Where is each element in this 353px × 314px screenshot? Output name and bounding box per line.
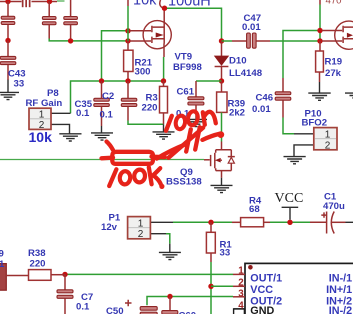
annotation 100n text [166, 110, 216, 130]
svg-text:IN-/2: IN-/2 [329, 305, 352, 314]
resistor R39 [217, 81, 246, 118]
svg-text:220: 220 [142, 102, 158, 113]
svg-text:D10: D10 [229, 55, 247, 66]
svg-text:2k2: 2k2 [229, 107, 245, 118]
svg-text:220: 220 [30, 258, 46, 269]
capacitor C43 [0, 41, 25, 90]
capacitor (x=8 top) [1, 2, 15, 41]
capacitor C35 [75, 81, 110, 126]
resistor R1 [206, 222, 232, 262]
node VCC junction [287, 220, 292, 225]
capacitor (x=49 top) [42, 2, 56, 39]
node x211 y222.3 [208, 220, 213, 225]
node x101.5 y81 [99, 78, 104, 83]
node D10/R39 junction [219, 78, 224, 83]
wire VCC pin2 row green [211, 285, 233, 287]
node x128 y41 [125, 38, 130, 43]
svg-text:68: 68 [249, 204, 260, 215]
svg-text:C46: C46 [256, 93, 274, 104]
svg-text:C50: C50 [106, 306, 124, 314]
svg-text:470: 470 [326, 0, 342, 7]
node x211 y286.3 [208, 284, 213, 289]
node x65 y274.4 [62, 272, 67, 277]
wire gate1 net green y30.8 [102, 31, 129, 81]
svg-text:OUT/1: OUT/1 [250, 272, 282, 284]
svg-text:0.01: 0.01 [252, 104, 271, 115]
svg-text:4: 4 [238, 301, 244, 312]
svg-text:33: 33 [220, 248, 231, 259]
svg-text:C60: C60 [179, 311, 197, 314]
ground (P8 pin2) [59, 134, 81, 141]
node x170 y296.5 [167, 294, 172, 299]
wire top net maroon [0, 0, 65, 3]
node top-left junction [5, 0, 10, 4]
svg-text:27k: 27k [325, 68, 342, 79]
svg-text:10k: 10k [133, 0, 157, 8]
svg-text:470u: 470u [323, 201, 345, 212]
node x163.5 y81 [161, 78, 166, 83]
ground (C61) [185, 113, 207, 127]
node x70.6 y41 [68, 38, 73, 43]
annotation crossed capacitor scribble [157, 127, 224, 158]
svg-text:1: 1 [138, 218, 144, 229]
svg-text:0.1: 0.1 [100, 110, 114, 121]
node VT9 drain junction [162, 6, 167, 11]
transistor MOSFET (right, partial) [322, 21, 353, 49]
transistor VT9 BF998 dual-gate MOSFET [130, 8, 202, 81]
svg-text:3: 3 [238, 289, 244, 300]
wire green R4 to C1 [270, 221, 310, 223]
ground (right MOSFET source, clipped) [345, 93, 353, 98]
wire OUT/1 net green y274.4 [65, 273, 233, 275]
svg-text:VCC: VCC [250, 284, 273, 296]
node top junction x49 [47, 0, 52, 4]
svg-text:R19: R19 [325, 57, 343, 68]
node x320 y41 [317, 38, 322, 43]
wire gate2/C46 net green [283, 31, 320, 79]
resistor R4 [232, 195, 270, 226]
svg-text:IN-/1: IN-/1 [329, 272, 352, 284]
svg-text:1: 1 [39, 109, 45, 120]
svg-text:2: 2 [238, 278, 244, 289]
svg-text:0.1: 0.1 [76, 302, 90, 313]
wire OUT/2 net green y296.5 [147, 297, 233, 306]
resistor R38 [6, 248, 65, 280]
svg-text:1: 1 [238, 266, 244, 277]
svg-text:0.1: 0.1 [76, 108, 90, 119]
svg-text:VCC: VCC [275, 191, 304, 206]
svg-text:BF998: BF998 [173, 62, 202, 73]
inductor 100uH (cut off, arc remnant) [160, 0, 165, 8]
connector P10 BFO2 [294, 108, 337, 156]
IC box [245, 263, 353, 314]
resistor R21 [124, 41, 153, 81]
node x128 y30.8 [125, 28, 130, 33]
svg-text:IN+/1: IN+/1 [326, 284, 352, 296]
capacitor C7 [57, 274, 93, 314]
svg-text:1: 1 [325, 130, 331, 141]
svg-text:300: 300 [135, 67, 151, 78]
node x128 y81 [125, 78, 130, 83]
inductor L? (cut off at top edge) [22, 0, 31, 7]
svg-text:12v: 12v [101, 222, 118, 233]
wire R1 to VCC pin green vertical [210, 262, 212, 314]
wire VCC net green y222.3 [173, 221, 232, 223]
resistor R19 [316, 41, 343, 82]
capacitor C46 [252, 78, 294, 134]
capacitor C2 [100, 81, 164, 124]
capacitor (x=170, cut bottom) [162, 297, 196, 314]
svg-text:2: 2 [138, 229, 144, 240]
connector P8 RF Gain [26, 88, 71, 145]
svg-text:LL4148: LL4148 [229, 68, 263, 79]
pin 4 lead + box (cut) [234, 309, 245, 314]
ground (R19) [308, 82, 330, 100]
capacitor C1 470u [310, 191, 353, 233]
annotation 100k text [109, 167, 164, 189]
ground (P1 pin2) [159, 252, 181, 259]
svg-text:2: 2 [325, 141, 331, 152]
ground (P10 pin2) [284, 157, 306, 164]
svg-text:BSS138: BSS138 [166, 176, 202, 187]
svg-text:0.01: 0.01 [242, 22, 261, 33]
wire gate2 net green y41 [49, 39, 128, 41]
power VCC symbol [275, 191, 304, 220]
capacitor (x=70.6 top) [64, 0, 78, 41]
transistor Q9 BSS138 [166, 150, 235, 188]
svg-text:10k: 10k [29, 129, 53, 145]
svg-text:RF Gain: RF Gain [26, 98, 63, 109]
svg-text:GND: GND [250, 305, 274, 314]
diode D10 LL4148 [215, 41, 263, 81]
ground (C35) [91, 126, 113, 140]
component left edge (cut) [0, 264, 6, 291]
pin 2 lead [233, 285, 245, 287]
wire R39 to Q9 drain [221, 112, 223, 149]
svg-text:BFO2: BFO2 [302, 117, 328, 128]
wire vertical x320 from top [319, 0, 321, 41]
capacitor C47 [222, 13, 271, 48]
wire long green y159.5 [0, 159, 204, 161]
pin 3 lead [233, 296, 245, 298]
resistor R3 [142, 81, 168, 124]
wire drain net green [167, 8, 222, 41]
wire C61/R39 net green [196, 80, 222, 82]
node x8 y40 [5, 38, 10, 43]
annotation resistor scribble [102, 142, 165, 164]
node x320 y30.5 [317, 28, 322, 33]
ground (Q9 source) [211, 178, 233, 193]
svg-text:33: 33 [14, 78, 25, 89]
node C47/D10 junction [219, 38, 224, 43]
wire source bias net green y81 [71, 81, 164, 113]
ground (C43) [0, 80, 19, 100]
svg-text:C2: C2 [102, 91, 114, 102]
ground (R3) [153, 124, 175, 139]
capacitor C50 (cut bottom) [106, 300, 157, 314]
svg-text:1: 1 [0, 259, 5, 270]
capacitor C61 [176, 81, 204, 120]
wire vertical x128 from top [127, 0, 129, 41]
connector P1 12v [101, 213, 173, 253]
wire gate1 net of right MOSFET [270, 40, 320, 42]
pin 1 lead [233, 273, 245, 275]
svg-text:C61: C61 [177, 87, 195, 98]
